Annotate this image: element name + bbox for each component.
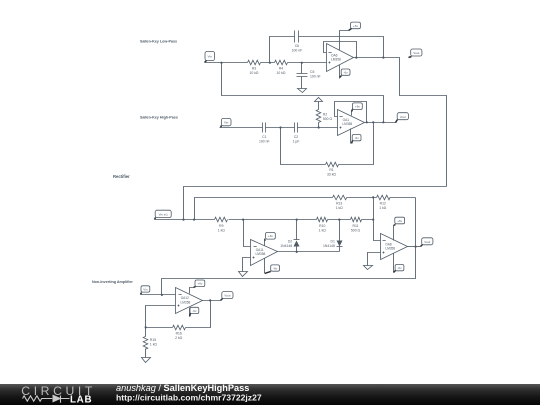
VCC arrow (above R2) [315, 98, 323, 102]
flag Vout (section 2) [396, 113, 409, 123]
op-amp OA11 [251, 240, 278, 266]
wire: OA6 output to right rail down to rectifier feed [354, 58, 447, 187]
flag Vout (section 1) [409, 49, 422, 58]
svg-text:+6v: +6v [197, 282, 202, 286]
svg-text:R3: R3 [252, 66, 256, 70]
svg-text:-6v: -6v [355, 136, 360, 140]
flag -6v (OA11) [265, 265, 280, 274]
svg-text:C2: C2 [294, 135, 298, 139]
OA1 VEE pin [350, 129, 352, 144]
node rectifier input [182, 219, 184, 221]
svg-text:R2: R2 [323, 112, 327, 116]
resistor R13 [333, 195, 347, 210]
wire: R13/R12 rail [195, 198, 416, 220]
svg-text:Vout: Vout [424, 240, 430, 244]
node R2 tap [318, 126, 320, 128]
node to R13 rail [193, 219, 195, 221]
wire: to OA11 inverting input [244, 220, 251, 247]
svg-text:Vout: Vout [413, 51, 419, 55]
node R15/R16 [145, 326, 147, 328]
wire: R1 feedback bottom loop [281, 123, 374, 165]
svg-text:1 kΩ: 1 kΩ [336, 206, 344, 210]
OA11 VEE pin [264, 259, 266, 274]
flag +6v (OA11) [265, 233, 276, 241]
wire: rectifier main line y=219.6 [155, 219, 374, 221]
resistor R1 [326, 162, 339, 176]
node R12 riser to OA8 output [415, 246, 417, 248]
resistor R9 [215, 217, 228, 232]
flag -6v (OA6) [340, 69, 351, 78]
svg-text:R12: R12 [380, 202, 386, 206]
OA6 VEE pin [339, 65, 341, 79]
svg-text:+6v: +6v [355, 105, 360, 109]
svg-text:LM358: LM358 [385, 247, 395, 251]
ground (R15) [142, 358, 151, 363]
node R1 riser to output [372, 121, 374, 123]
svg-text:+6v: +6v [353, 24, 358, 28]
svg-text:10 kΩ: 10 kΩ [250, 71, 259, 75]
OA12 VCC pin [190, 288, 194, 294]
svg-text:LM358: LM358 [181, 300, 191, 304]
resistor R10 [317, 217, 328, 232]
ground (OA11) [239, 272, 248, 277]
svg-text:LM358: LM358 [331, 58, 341, 62]
flag +6v (OA12) [194, 280, 205, 288]
wire: OA11 output bus [278, 251, 340, 253]
CircuitLab logo: resistor-diode-LAB line [23, 396, 70, 403]
node D2 bottom [296, 251, 298, 253]
capacitor C1 [259, 123, 270, 144]
wire: after R11 up/down to OA8 inverting input [374, 198, 381, 241]
wire: R12 down + long feedback to OA12 inverting input [162, 198, 416, 295]
resistor R16 [173, 325, 186, 340]
op-amp OA8 [381, 234, 408, 260]
svg-text:2 kΩ: 2 kΩ [175, 336, 183, 340]
node OA1 feedback to output [366, 121, 368, 123]
node C1-C2 (R1 tap) [279, 126, 281, 128]
wire: C6 feedback loop [270, 37, 384, 63]
wire: OA1 output [365, 122, 397, 124]
flag +6v (OA6) [349, 22, 361, 30]
OA6 VCC pin [340, 31, 349, 51]
svg-text:-6v: -6v [397, 266, 402, 270]
wire: OA8 output [408, 246, 421, 248]
svg-text:33 kΩ: 33 kΩ [327, 172, 336, 176]
op-amp OA6 [327, 44, 354, 72]
OA8 VEE pin [393, 254, 395, 273]
svg-text:R13: R13 [336, 202, 342, 206]
node feedback to output [355, 57, 357, 59]
svg-text:100 nF: 100 nF [292, 49, 303, 53]
svg-text:D1: D1 [331, 239, 335, 243]
resistor R2 [316, 102, 332, 128]
node R13-R12 junction [372, 196, 374, 198]
capacitor C6 [292, 31, 303, 53]
resistor R12 [377, 195, 391, 210]
op-amp OA12 [176, 288, 203, 314]
svg-text:Vin: Vin [208, 55, 213, 59]
resistor R3 [248, 60, 261, 75]
wire: OA1 negative feedback box [335, 102, 367, 123]
svg-text:R11: R11 [353, 224, 359, 228]
svg-text:Vin in1: Vin in1 [159, 212, 168, 216]
svg-text:C6: C6 [295, 44, 299, 48]
svg-text:Vout: Vout [400, 115, 406, 119]
svg-text:Sallen-Key Low-Pass: Sallen-Key Low-Pass [140, 39, 177, 43]
svg-text:R4: R4 [279, 66, 283, 70]
diode D2 [280, 220, 299, 252]
svg-text:Vin: Vin [224, 121, 229, 125]
OA11 VCC pin [264, 239, 266, 246]
flag -6v (OA12) [190, 307, 199, 316]
svg-text:Non-Inverting Amplifier: Non-Inverting Amplifier [92, 280, 133, 284]
svg-text:Vout: Vout [224, 294, 230, 298]
svg-text:500 Ω: 500 Ω [323, 117, 333, 121]
svg-text:+6v: +6v [397, 219, 402, 223]
flag Vout (section 4) [221, 292, 234, 301]
flag Vin (section 4) [141, 286, 150, 295]
svg-text:C5: C5 [310, 70, 314, 74]
svg-text:1 kΩ: 1 kΩ [379, 206, 387, 210]
svg-text:100 nF: 100 nF [310, 74, 321, 78]
svg-text:1 kΩ: 1 kΩ [150, 343, 158, 347]
flag Vin in1 (rectifier) [155, 210, 172, 219]
svg-text:LM358: LM358 [342, 122, 352, 126]
flag -6v (OA8) [394, 265, 404, 273]
node to OA11 inverting input [242, 219, 244, 221]
wire: OA12 inverting input line [141, 294, 176, 296]
OA1 VCC pin [352, 109, 353, 116]
svg-text:R10: R10 [319, 224, 325, 228]
svg-text:100 nF: 100 nF [259, 139, 270, 143]
svg-text:LAB: LAB [70, 394, 92, 405]
wire: left rail from Vin node down and across to OA1 output [222, 63, 384, 123]
flag Vout (rectifier) [421, 238, 433, 247]
OA12 VEE pin [189, 308, 191, 317]
node after R11 [372, 219, 374, 221]
svg-text:1 kΩ: 1 kΩ [218, 228, 226, 232]
flag +6v (OA1) [352, 103, 363, 112]
ground (OA8) [364, 266, 373, 270]
OA8 VCC pin [393, 226, 395, 241]
node D2 top [296, 219, 298, 221]
svg-text:-6v: -6v [192, 309, 197, 313]
svg-text:+6v: +6v [268, 234, 273, 238]
diode D1 [323, 220, 342, 252]
svg-text:10 kΩ: 10 kΩ [277, 71, 286, 75]
wire: OA6 negative feedback [324, 42, 357, 58]
flag Vin (section 2) [221, 118, 232, 127]
svg-text:Vin: Vin [143, 287, 148, 291]
flag Vin (section 1) [205, 52, 215, 63]
node at x=301.8 (C5 tap) [301, 62, 303, 64]
svg-text:LM358: LM358 [256, 252, 266, 256]
svg-text:anushkag / SallenKeyHighPass: anushkag / SallenKeyHighPass [116, 384, 249, 393]
svg-text:-6v: -6v [344, 71, 349, 75]
svg-text:R15: R15 [150, 338, 156, 342]
node R16 riser to output [209, 299, 211, 301]
wire: section1 main input line y=62.7 [205, 62, 327, 64]
svg-text:1 µF: 1 µF [293, 139, 300, 143]
svg-text:1N4148: 1N4148 [280, 244, 292, 248]
resistor R11 [351, 217, 362, 232]
capacitor C2 [293, 123, 300, 144]
resistor R15 [143, 328, 157, 358]
ground (below C5) [298, 89, 307, 93]
node between R3 and R4 (C6 tap) [269, 62, 271, 64]
svg-text:R9: R9 [219, 224, 223, 228]
svg-text:1 kΩ: 1 kΩ [319, 228, 327, 232]
wire: R16 feedback line [146, 301, 211, 328]
capacitor C5 [297, 63, 321, 89]
wire: OA12 non-inverting input down to R15/R16 node [146, 306, 176, 328]
node C6 to output wire [382, 57, 384, 59]
svg-text:R1: R1 [329, 168, 333, 172]
flag -6v (OA1) [352, 135, 362, 144]
op-amp OA1 [338, 110, 365, 136]
svg-text:-6v: -6v [273, 267, 278, 271]
wire: OA12 output [203, 300, 221, 302]
svg-text:C1: C1 [262, 135, 266, 139]
flag +6v (OA8) [394, 217, 405, 225]
resistor R4 [275, 60, 288, 75]
node rail to OA1 output [382, 121, 384, 123]
node D1 top [338, 219, 340, 221]
svg-text:Sallen-Key High-Pass: Sallen-Key High-Pass [140, 115, 178, 119]
svg-text:Rectifier: Rectifier [113, 174, 130, 179]
node at x=221.5 (to lower rail) [220, 62, 222, 64]
wire: feed from section1 output into rectifier input [184, 187, 447, 220]
wire: OA11 non-inverting input to ground [243, 258, 251, 272]
svg-text:R16: R16 [176, 332, 182, 336]
node feedback to OA12 inverting input [161, 294, 163, 296]
wire: OA8 non-inverting input to ground [368, 253, 381, 266]
svg-text:http://circuitlab.com/chmr7372: http://circuitlab.com/chmr73722jz27 [116, 393, 262, 403]
svg-text:1N4148: 1N4148 [323, 244, 335, 248]
svg-text:500 Ω: 500 Ω [351, 228, 361, 232]
wire: section2 main input line y=127.5 [220, 127, 338, 129]
svg-text:D2: D2 [288, 239, 292, 243]
